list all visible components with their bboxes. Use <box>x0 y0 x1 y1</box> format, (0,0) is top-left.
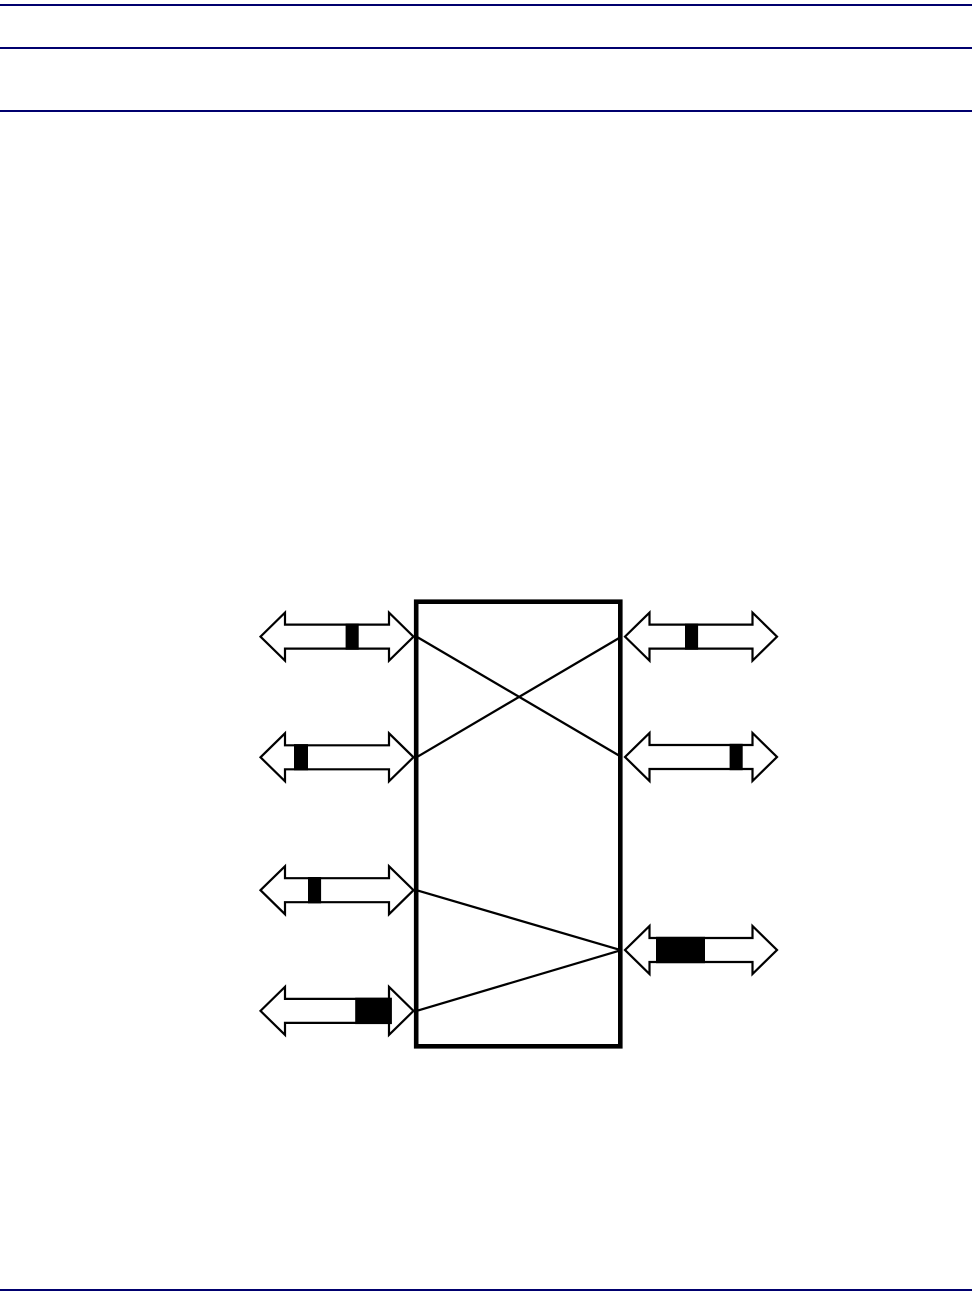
right arrow 3 (bidirectional port) <box>625 926 777 974</box>
right arrow 1 (bidirectional port) <box>625 613 777 661</box>
left arrow 3 (bidirectional port) <box>261 866 414 914</box>
right arrow 2 (bidirectional port) <box>625 733 777 781</box>
black data block in arrow L2 <box>294 744 308 770</box>
header rule 3 (navy line) <box>0 110 972 112</box>
header rule 2 (navy line) <box>0 47 972 49</box>
left arrow 4 (bidirectional port) <box>261 987 414 1035</box>
footer rule (bottom navy line) <box>0 1289 972 1291</box>
header rule 1 (top navy line) <box>0 4 972 6</box>
black data block in arrow L1 <box>346 623 359 649</box>
black data block in arrow L4 <box>355 998 392 1024</box>
black data block in arrow R3 <box>656 937 705 963</box>
left arrow 2 (bidirectional port) <box>261 733 414 781</box>
black data block in arrow R2 <box>730 744 743 770</box>
wire: crossing line from left port 1 to right port 2 <box>417 637 622 757</box>
left arrow 1 (bidirectional port) <box>261 613 414 661</box>
wire: crossing line from left port 2 to right port 1 <box>417 637 622 758</box>
switch box (central rectangle) <box>416 602 620 1047</box>
wire: line from left port 3 to right port 3 <box>417 890 622 950</box>
wire: line from left port 4 to right port 3 <box>417 950 622 1011</box>
black data block in arrow R1 <box>685 623 698 649</box>
black data block in arrow L3 <box>308 877 321 903</box>
